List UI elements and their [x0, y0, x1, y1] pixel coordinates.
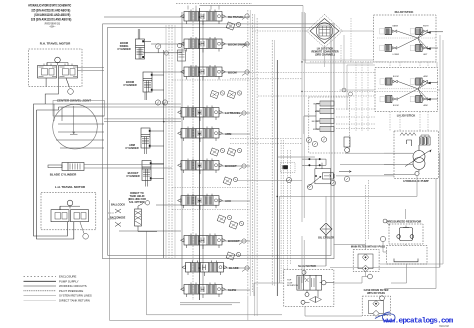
swivel horizontal feed	[34, 104, 59, 110]
circle id 7	[380, 236, 385, 241]
svg-text:CYLINDER: CYLINDER	[125, 146, 138, 150]
bus drops to bottom rail	[248, 288, 257, 320]
dashed line under row3	[172, 79, 250, 81]
legend working circuits line	[24, 285, 57, 287]
row2 left circle	[177, 43, 181, 47]
watermark pen swoosh	[375, 312, 395, 322]
svg-text:—6904—: —6904—	[49, 27, 56, 29]
svg-text:BOOM: BOOM	[393, 105, 399, 107]
svg-text:BOOM: BOOM	[228, 71, 237, 75]
valve SLEW	[181, 283, 226, 299]
svg-text:TUF: TUF	[287, 280, 292, 282]
slew motor block	[297, 270, 334, 304]
boom swing cylinder wires	[138, 29, 182, 53]
servo gauges	[307, 184, 312, 189]
boom swing cylinder	[136, 39, 145, 59]
arm cylinder	[141, 128, 150, 148]
label direct to tank	[111, 192, 146, 207]
pump circles	[405, 145, 432, 176]
pump return routing	[279, 153, 439, 283]
RH motor drain wires	[45, 78, 69, 104]
svg-text:ROTATION: ROTATION	[287, 284, 298, 287]
svg-text:L.H. TRAVEL MOTOR: L.H. TRAVEL MOTOR	[55, 185, 86, 189]
rh joystick cells	[380, 28, 397, 35]
servo valve	[307, 159, 351, 188]
valve BLADE	[182, 261, 227, 277]
relief after row7	[217, 215, 232, 223]
working lines to LH travel valve	[104, 104, 181, 122]
drain circle R	[68, 89, 74, 95]
boom cylinder	[143, 72, 152, 92]
bucket cylinder	[142, 161, 151, 181]
row1 top stubs	[188, 6, 219, 10]
bucket cylinder wires	[146, 164, 164, 187]
pilot cluster enclosure	[309, 97, 350, 153]
main filter symbol	[358, 254, 373, 279]
svg-text:CYLINDER: CYLINDER	[123, 83, 136, 87]
svg-text:325 (S/N AAC511001 AND ABOVE): 325 (S/N AAC511001 AND ABOVE)	[31, 8, 70, 12]
relief after row5	[210, 148, 225, 156]
inter-row dashed line	[172, 187, 250, 189]
svg-text:(PRINTED FEBRUARY 2005): (PRINTED FEBRUARY 2005)	[45, 23, 61, 26]
pump feed thick line	[277, 156, 315, 158]
label remote converter	[311, 48, 338, 57]
blade cylinder symbol	[48, 163, 84, 171]
svg-text:PRESSURIZED RESERVOIR: PRESSURIZED RESERVOIR	[387, 220, 422, 224]
valve AUX	[178, 194, 223, 210]
LH motor loop wires	[34, 107, 74, 239]
relief after row3	[210, 90, 225, 98]
wire slew feeds	[254, 283, 362, 316]
enclosure lower box 2	[147, 232, 283, 315]
svg-text:WORKING CIRCUITS: WORKING CIRCUITS	[59, 284, 87, 288]
svg-text:CYLINDER: CYLINDER	[117, 47, 130, 51]
swivel body plate	[53, 101, 105, 117]
LH travel motor valve block	[51, 200, 89, 222]
supply vertical lines	[182, 8, 203, 300]
legend enclosure line	[24, 276, 57, 278]
pump feed lines	[384, 153, 415, 174]
relief after row1	[226, 22, 241, 30]
callout circles	[239, 14, 249, 272]
tank symbol	[394, 259, 418, 262]
ballcock valve	[108, 201, 157, 232]
lh joystick cell labels	[393, 75, 428, 107]
pump coil line	[400, 133, 416, 136]
svg-text:MAIN FILTER WITH BY-PASS: MAIN FILTER WITH BY-PASS	[351, 246, 386, 249]
blade cylinder wires to bus	[84, 165, 172, 169]
rh joystick cross wires	[377, 31, 443, 49]
joystick meet circles	[342, 88, 346, 92]
valve RH TRAVEL	[181, 10, 226, 26]
svg-text:HYDRAULIC/HYDROSTATIC SCHEMATI: HYDRAULIC/HYDROSTATIC SCHEMATIC	[28, 4, 71, 8]
LH travel motor enclosure (dashed)	[41, 192, 96, 230]
pilot feed wires	[304, 104, 320, 135]
converter diamond	[307, 15, 343, 48]
lh joystick cells	[380, 78, 397, 85]
svg-text:R.H. TRAVEL MOTOR: R.H. TRAVEL MOTOR	[40, 42, 71, 46]
servo junction dots	[308, 158, 320, 177]
lh joystick cross wires	[378, 82, 438, 101]
wire top bus	[104, 4, 303, 291]
svg-text:RIGHT: RIGHT	[423, 26, 429, 28]
case drain filter enclosure	[362, 296, 391, 315]
svg-text:DIRECT TANK RETURN: DIRECT TANK RETURN	[59, 299, 90, 303]
svg-text:ARM: ARM	[424, 104, 428, 107]
svg-text:PILOT PRESSURE: PILOT PRESSURE	[59, 289, 83, 293]
svg-text:ARM: ARM	[315, 110, 319, 113]
rh joystick cell labels	[393, 25, 430, 57]
pump enclosure	[394, 131, 439, 178]
RH travel motor enclosure (dashed)	[29, 49, 83, 87]
svg-text:ARM: ARM	[424, 75, 428, 78]
svg-text:BOOM: BOOM	[393, 76, 399, 78]
pump control lever	[407, 140, 412, 146]
return bus vertical pair	[302, 12, 304, 283]
swivel center pin	[70, 106, 78, 135]
pilot valve 3	[320, 119, 334, 124]
svg-text:BOOM: BOOM	[314, 104, 320, 106]
legend system return line	[24, 295, 57, 297]
svg-text:SWING: SWING	[313, 129, 320, 131]
valve BOOM	[181, 65, 226, 81]
legend pump supply line	[24, 280, 57, 282]
svg-text:BLADE CYLINDER: BLADE CYLINDER	[50, 173, 77, 177]
reservoir component	[383, 219, 414, 241]
svg-text:LH JOYSTICK: LH JOYSTICK	[397, 114, 416, 118]
valve BOOM SWING	[181, 37, 226, 53]
legend pilot pressure line	[24, 290, 57, 292]
gauge mid circle	[164, 51, 168, 55]
valve LH TRAVEL	[178, 106, 223, 122]
svg-text:328 (S/N A9K111001 AND ABOVE): 328 (S/N A9K111001 AND ABOVE)	[31, 17, 72, 21]
enclosure main box outer	[103, 24, 334, 259]
pilot valve 4	[320, 127, 334, 132]
connector block dark	[283, 165, 289, 169]
svg-text:PUMP SUPPLY: PUMP SUPPLY	[59, 279, 79, 283]
svg-text:RACCOMODE: RACCOMODE	[110, 217, 126, 220]
RH motor wires to enclosure	[77, 68, 104, 71]
wire joystick feeds	[303, 6, 440, 111]
valve BUCKET	[178, 159, 223, 175]
valve ARM	[178, 127, 223, 143]
swivel circle	[53, 104, 98, 149]
main filter enclosure	[353, 250, 379, 272]
slew motor enclosure	[284, 270, 334, 307]
wire pump connections	[310, 153, 436, 288]
svg-text:RH JOYSTICK: RH JOYSTICK	[395, 10, 414, 14]
svg-text:HYDRAULIC PUMP: HYDRAULIC PUMP	[403, 179, 428, 183]
arm cylinder wires	[145, 131, 164, 154]
connector enclosure	[281, 163, 296, 173]
reservoir tank box	[387, 246, 428, 265]
legend direct tank return line	[24, 299, 57, 301]
case drain filter symbol	[369, 296, 385, 317]
lh joystick enclosure	[375, 68, 438, 112]
svg-text:SYSTEM RETURN LINES: SYSTEM RETURN LINES	[59, 294, 92, 298]
gauge near boom swing	[156, 44, 161, 49]
bottom stack lines	[180, 303, 240, 305]
svg-text:ENCLOSURE: ENCLOSURE	[59, 275, 77, 279]
valve BOOM AUX	[181, 234, 226, 250]
boom cylinder wires	[145, 75, 164, 100]
svg-text:LOWER: LOWER	[393, 54, 400, 56]
relief before blade	[226, 252, 241, 260]
svg-text:WITH BY-PASS: WITH BY-PASS	[367, 292, 385, 295]
converter left dashed link	[252, 30, 310, 32]
svg-text:(3RD CHANNEL): (3RD CHANNEL)	[315, 54, 335, 57]
svg-text:RAISE: RAISE	[393, 25, 399, 28]
rh joystick enclosure	[374, 15, 437, 62]
extra right bus verticals	[281, 140, 290, 283]
svg-text:CYLINDER: CYLINDER	[126, 174, 139, 178]
inlet block left of row2	[178, 50, 186, 61]
pilot dashed horizontals	[230, 62, 437, 143]
pump feed horizontal	[237, 180, 302, 182]
connector gauge	[286, 177, 291, 182]
swivel wiring loop	[45, 104, 104, 148]
gauge pair below boom cylinder	[155, 100, 160, 105]
pilot cluster accumulator	[344, 137, 350, 152]
title text	[28, 4, 71, 29]
pump solenoid block	[420, 135, 431, 145]
oil cooler diamond	[320, 223, 332, 235]
enclosure right pilot loop	[330, 35, 443, 267]
servo top wires	[302, 159, 326, 165]
pilot bus lines	[166, 25, 175, 258]
pilot valve labels	[312, 104, 320, 132]
svg-text:(S/N A9K611001 AND ABOVE): (S/N A9K611001 AND ABOVE)	[34, 13, 70, 17]
svg-text:BALLCOCK: BALLCOCK	[111, 204, 125, 207]
working vertical line	[163, 50, 165, 258]
pilot cluster gauges	[306, 137, 311, 142]
RH travel motor valve block	[38, 57, 78, 78]
enclosure lower box	[110, 200, 391, 320]
pilot valve 1	[320, 101, 334, 106]
drain circle L	[83, 234, 89, 240]
reservoir enclosure	[389, 224, 423, 244]
relief after row6	[223, 177, 238, 185]
pilot valve 2	[320, 109, 334, 114]
joystick pilot drop lines	[341, 18, 428, 131]
